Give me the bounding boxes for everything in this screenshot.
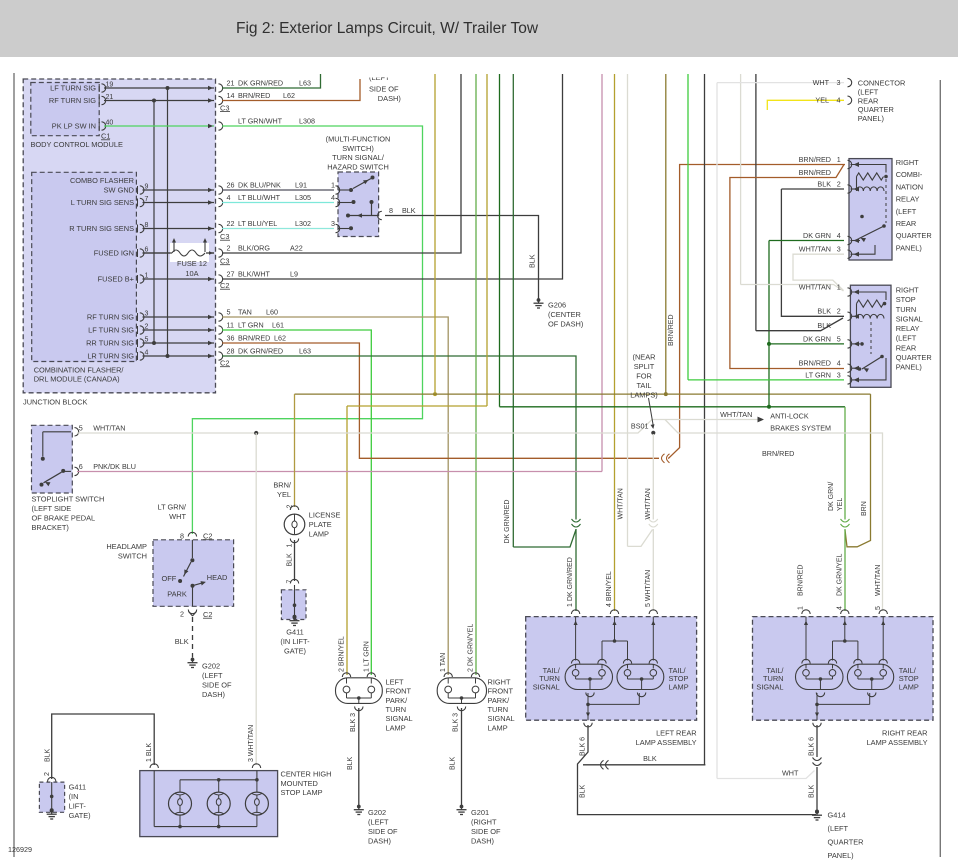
svg-text:HEAD: HEAD <box>207 573 228 582</box>
svg-text:BLK: BLK <box>450 756 457 770</box>
svg-text:L305: L305 <box>295 193 311 202</box>
svg-text:G201: G201 <box>471 808 489 817</box>
svg-text:1: 1 <box>798 606 805 610</box>
svg-text:SWITCH: SWITCH <box>118 551 147 560</box>
svg-text:QUARTER: QUARTER <box>828 838 864 847</box>
svg-text:BLK/WHT: BLK/WHT <box>238 269 271 278</box>
svg-text:PLATE: PLATE <box>309 520 332 529</box>
svg-text:GATE): GATE) <box>69 811 91 820</box>
svg-text:LT BLU/YEL: LT BLU/YEL <box>238 219 277 228</box>
svg-text:LAMP: LAMP <box>488 723 508 732</box>
svg-text:MOUNTED: MOUNTED <box>281 779 318 788</box>
svg-text:3: 3 <box>837 78 841 87</box>
svg-text:WHT/TAN: WHT/TAN <box>618 488 625 519</box>
svg-text:BLK: BLK <box>287 553 294 567</box>
svg-text:RF TURN SIG: RF TURN SIG <box>49 96 96 105</box>
svg-text:3: 3 <box>331 219 335 228</box>
svg-text:5: 5 <box>79 424 83 433</box>
svg-text:A22: A22 <box>290 243 303 252</box>
svg-text:DASH): DASH) <box>202 690 225 699</box>
svg-text:1: 1 <box>287 544 294 548</box>
svg-text:8: 8 <box>180 532 184 541</box>
svg-text:5: 5 <box>875 606 882 610</box>
svg-text:LT BLU/WHT: LT BLU/WHT <box>238 193 281 202</box>
svg-text:DASH): DASH) <box>368 836 391 845</box>
svg-text:FRONT: FRONT <box>488 687 514 696</box>
svg-text:1 DK GRN/RED: 1 DK GRN/RED <box>567 557 574 607</box>
svg-text:PK LP SW IN: PK LP SW IN <box>52 122 96 131</box>
svg-text:YEL: YEL <box>837 498 844 511</box>
svg-text:WHT/TAN: WHT/TAN <box>93 424 125 433</box>
svg-text:10A: 10A <box>185 269 198 278</box>
svg-text:BRAKES SYSTEM: BRAKES SYSTEM <box>770 424 831 433</box>
svg-text:BLK: BLK <box>580 784 587 798</box>
svg-text:L63: L63 <box>299 78 311 87</box>
svg-text:TURN SIGNAL/: TURN SIGNAL/ <box>332 153 385 162</box>
svg-text:DRL MODULE (CANADA): DRL MODULE (CANADA) <box>34 375 120 384</box>
svg-text:LT GRN: LT GRN <box>238 320 264 329</box>
svg-text:OF DASH): OF DASH) <box>548 320 583 329</box>
svg-text:LT GRN: LT GRN <box>805 370 831 379</box>
svg-text:DK GRN/RED: DK GRN/RED <box>238 78 283 87</box>
svg-text:DASH): DASH) <box>471 836 494 845</box>
svg-text:2: 2 <box>227 243 231 252</box>
svg-text:26: 26 <box>227 180 235 189</box>
svg-text:C2: C2 <box>220 281 229 290</box>
svg-text:BLK: BLK <box>817 179 831 188</box>
svg-text:GATE): GATE) <box>284 647 306 656</box>
svg-text:TURN: TURN <box>896 305 917 314</box>
svg-text:REAR: REAR <box>896 343 917 352</box>
svg-text:28: 28 <box>227 346 235 355</box>
svg-text:L9: L9 <box>290 269 298 278</box>
svg-text:YEL: YEL <box>277 490 291 499</box>
svg-text:COMBI-: COMBI- <box>896 170 923 179</box>
svg-text:BODY CONTROL MODULE: BODY CONTROL MODULE <box>31 140 123 149</box>
svg-text:(LEFT: (LEFT <box>828 824 849 833</box>
svg-text:DK GRN/: DK GRN/ <box>828 482 835 511</box>
svg-text:SPLIT: SPLIT <box>634 362 655 371</box>
svg-text:4: 4 <box>837 606 844 610</box>
svg-text:(LEFT: (LEFT <box>896 334 917 343</box>
svg-text:BRN/RED: BRN/RED <box>799 168 831 177</box>
svg-text:1 LT GRN: 1 LT GRN <box>363 641 370 672</box>
svg-text:G411: G411 <box>69 783 87 792</box>
svg-text:RIGHT: RIGHT <box>896 158 919 167</box>
svg-text:SIGNAL: SIGNAL <box>386 714 413 723</box>
svg-text:LAMP: LAMP <box>309 530 329 539</box>
svg-text:4: 4 <box>837 231 841 240</box>
svg-text:2: 2 <box>180 610 184 619</box>
svg-text:G411: G411 <box>286 628 304 637</box>
svg-text:QUARTER: QUARTER <box>896 353 932 362</box>
svg-text:ANTI-LOCK: ANTI-LOCK <box>770 411 809 420</box>
svg-text:RELAY: RELAY <box>896 324 920 333</box>
svg-text:L91: L91 <box>295 180 307 189</box>
svg-text:8: 8 <box>389 206 393 215</box>
svg-text:BS01: BS01 <box>631 421 649 430</box>
svg-text:(NEAR: (NEAR <box>633 353 656 362</box>
svg-text:PARK/: PARK/ <box>386 696 409 705</box>
svg-text:(LEFT: (LEFT <box>202 671 223 680</box>
svg-text:C2: C2 <box>203 532 212 541</box>
svg-text:NATION: NATION <box>896 182 923 191</box>
svg-text:3: 3 <box>837 370 841 379</box>
svg-text:PANEL): PANEL) <box>828 851 854 860</box>
svg-text:LIFT-: LIFT- <box>69 802 87 811</box>
svg-text:LAMP ASSEMBLY: LAMP ASSEMBLY <box>636 738 697 747</box>
svg-text:4: 4 <box>227 193 231 202</box>
svg-text:SIDE OF: SIDE OF <box>471 827 501 836</box>
svg-text:OF BRAKE PEDAL: OF BRAKE PEDAL <box>32 514 96 523</box>
svg-text:BRN/RED: BRN/RED <box>238 333 270 342</box>
svg-text:(IN: (IN <box>69 792 79 801</box>
svg-text:DK BLU/PNK: DK BLU/PNK <box>238 180 281 189</box>
svg-text:LAMP ASSEMBLY: LAMP ASSEMBLY <box>867 738 928 747</box>
svg-text:BLK 3: BLK 3 <box>453 713 460 732</box>
svg-text:1 BLK: 1 BLK <box>146 743 153 762</box>
svg-text:(LEFT: (LEFT <box>858 87 879 96</box>
svg-text:C2: C2 <box>203 610 212 619</box>
svg-text:RELAY: RELAY <box>896 195 920 204</box>
svg-text:22: 22 <box>227 219 235 228</box>
svg-text:HEADLAMP: HEADLAMP <box>106 542 147 551</box>
svg-text:4 BRN/YEL: 4 BRN/YEL <box>606 571 613 607</box>
svg-text:1: 1 <box>837 155 841 164</box>
svg-text:(LEFT: (LEFT <box>368 817 389 826</box>
svg-text:BLK: BLK <box>175 637 189 646</box>
svg-text:BLK: BLK <box>809 784 816 798</box>
svg-text:BLK: BLK <box>347 756 354 770</box>
svg-text:LF TURN SIG: LF TURN SIG <box>88 326 134 335</box>
svg-text:(IN LIFT-: (IN LIFT- <box>280 637 310 646</box>
svg-text:G202: G202 <box>368 808 386 817</box>
svg-text:LR TURN SIG: LR TURN SIG <box>87 352 134 361</box>
svg-text:BRN/RED: BRN/RED <box>762 449 794 458</box>
svg-text:SIGNAL: SIGNAL <box>756 683 783 692</box>
svg-text:PANEL): PANEL) <box>896 363 922 372</box>
svg-text:DK GRN/YEL: DK GRN/YEL <box>837 553 844 596</box>
svg-text:4: 4 <box>331 193 335 202</box>
svg-text:BRN/RED: BRN/RED <box>238 91 270 100</box>
svg-text:BRACKET): BRACKET) <box>32 523 69 532</box>
svg-text:FOR: FOR <box>636 372 652 381</box>
svg-text:WHT/TAN: WHT/TAN <box>799 282 831 291</box>
svg-text:STOPLIGHT SWITCH: STOPLIGHT SWITCH <box>32 495 105 504</box>
svg-text:TURN: TURN <box>386 705 407 714</box>
svg-text:WHT/TAN: WHT/TAN <box>720 410 752 419</box>
svg-text:REAR: REAR <box>896 219 917 228</box>
svg-text:(RIGHT: (RIGHT <box>471 817 497 826</box>
svg-text:4: 4 <box>837 359 841 368</box>
svg-text:PANEL): PANEL) <box>896 243 922 252</box>
svg-text:COMBO FLASHER: COMBO FLASHER <box>70 176 134 185</box>
svg-text:LICENSE: LICENSE <box>309 511 341 520</box>
svg-text:L63: L63 <box>299 346 311 355</box>
svg-text:BLK: BLK <box>402 206 416 215</box>
svg-text:DK GRN: DK GRN <box>803 334 831 343</box>
svg-text:L TURN SIG SENS: L TURN SIG SENS <box>71 198 134 207</box>
svg-text:36: 36 <box>227 333 235 342</box>
svg-text:(LEFT: (LEFT <box>896 207 917 216</box>
svg-text:PARK: PARK <box>167 590 187 599</box>
svg-text:4: 4 <box>837 96 841 105</box>
svg-text:STOP: STOP <box>896 295 916 304</box>
svg-text:2: 2 <box>44 772 51 776</box>
svg-text:DK GRN/RED: DK GRN/RED <box>504 500 511 544</box>
svg-text:(MULTI-FUNCTION: (MULTI-FUNCTION <box>326 135 391 144</box>
svg-text:DASH): DASH) <box>378 94 401 103</box>
svg-text:CENTER HIGH: CENTER HIGH <box>281 770 332 779</box>
svg-text:RIGHT REAR: RIGHT REAR <box>882 728 927 737</box>
svg-text:LAMPS): LAMPS) <box>630 391 658 400</box>
svg-text:WHT: WHT <box>169 512 186 521</box>
svg-text:L302: L302 <box>295 219 311 228</box>
svg-text:FUSE 12: FUSE 12 <box>177 259 207 268</box>
svg-text:G202: G202 <box>202 661 220 670</box>
svg-text:STOP LAMP: STOP LAMP <box>281 788 323 797</box>
svg-text:SW GND: SW GND <box>104 186 134 195</box>
svg-text:RF TURN SIG: RF TURN SIG <box>87 313 134 322</box>
svg-text:LF TURN SIG: LF TURN SIG <box>50 84 96 93</box>
svg-text:1: 1 <box>331 180 335 189</box>
svg-text:LT GRN/WHT: LT GRN/WHT <box>238 116 283 125</box>
svg-text:2 BRN/YEL: 2 BRN/YEL <box>339 636 346 672</box>
svg-text:SIGNAL: SIGNAL <box>488 714 515 723</box>
svg-text:C3: C3 <box>220 103 229 112</box>
svg-text:LEFT REAR: LEFT REAR <box>656 728 697 737</box>
svg-text:C1: C1 <box>101 132 110 141</box>
svg-text:LT GRN/: LT GRN/ <box>158 503 187 512</box>
svg-text:L308: L308 <box>299 116 315 125</box>
svg-text:126929: 126929 <box>8 845 32 854</box>
svg-text:YEL: YEL <box>815 96 829 105</box>
svg-text:SIGNAL: SIGNAL <box>533 683 560 692</box>
svg-text:DK GRN/RED: DK GRN/RED <box>238 346 283 355</box>
svg-text:6: 6 <box>79 462 83 471</box>
svg-text:(LEFT SIDE: (LEFT SIDE <box>32 504 72 513</box>
svg-text:PNK/DK BLU: PNK/DK BLU <box>93 462 136 471</box>
svg-text:LAMP: LAMP <box>899 683 919 692</box>
svg-text:3: 3 <box>837 245 841 254</box>
svg-text:(CENTER: (CENTER <box>548 310 581 319</box>
svg-text:L60: L60 <box>266 307 278 316</box>
svg-text:BRN/RED: BRN/RED <box>798 564 805 596</box>
svg-text:LAMP: LAMP <box>386 723 406 732</box>
svg-text:C2: C2 <box>220 359 229 368</box>
svg-text:WHT: WHT <box>782 769 799 778</box>
svg-text:BLK: BLK <box>45 748 52 762</box>
svg-text:5 WHT/TAN: 5 WHT/TAN <box>645 570 652 607</box>
svg-text:1 TAN: 1 TAN <box>440 653 447 672</box>
svg-text:BRN/RED: BRN/RED <box>668 314 675 346</box>
svg-text:TURN: TURN <box>488 705 509 714</box>
svg-text:C3: C3 <box>220 232 229 241</box>
svg-text:SIDE OF: SIDE OF <box>202 680 232 689</box>
svg-text:5: 5 <box>837 334 841 343</box>
svg-text:G206: G206 <box>548 301 566 310</box>
svg-text:G414: G414 <box>828 811 846 820</box>
svg-text:BLK: BLK <box>528 254 537 268</box>
svg-text:PANEL): PANEL) <box>858 114 884 123</box>
svg-text:QUARTER: QUARTER <box>896 231 932 240</box>
svg-text:BRN/: BRN/ <box>273 481 292 490</box>
svg-text:WHT/TAN: WHT/TAN <box>799 245 831 254</box>
svg-text:27: 27 <box>227 269 235 278</box>
svg-text:11: 11 <box>227 320 234 329</box>
svg-text:BLK 6: BLK 6 <box>809 737 816 756</box>
svg-text:BRN/RED: BRN/RED <box>799 155 831 164</box>
svg-text:SIGNAL: SIGNAL <box>896 314 923 323</box>
svg-text:SIDE OF: SIDE OF <box>369 85 399 94</box>
svg-text:WHT/TAN: WHT/TAN <box>875 565 882 596</box>
svg-text:BRN/RED: BRN/RED <box>799 359 831 368</box>
svg-text:PARK/: PARK/ <box>488 696 511 705</box>
svg-text:BLK 3: BLK 3 <box>350 713 357 732</box>
svg-text:L62: L62 <box>274 333 286 342</box>
svg-text:5: 5 <box>227 307 231 316</box>
svg-text:TAIL: TAIL <box>636 381 651 390</box>
svg-text:R TURN SIG SENS: R TURN SIG SENS <box>69 224 134 233</box>
svg-text:SWITCH): SWITCH) <box>342 144 374 153</box>
svg-text:14: 14 <box>227 91 235 100</box>
svg-text:L62: L62 <box>283 91 295 100</box>
svg-text:OFF: OFF <box>162 574 177 583</box>
svg-text:CONNECTOR: CONNECTOR <box>858 79 906 88</box>
svg-text:WHT/TAN: WHT/TAN <box>645 488 652 519</box>
svg-text:2: 2 <box>837 179 841 188</box>
svg-text:2 DK GRN/YEL: 2 DK GRN/YEL <box>468 624 475 672</box>
svg-text:1: 1 <box>837 282 841 291</box>
svg-text:RR TURN SIG: RR TURN SIG <box>86 339 134 348</box>
svg-text:L61: L61 <box>272 320 284 329</box>
svg-text:HAZARD SWITCH: HAZARD SWITCH <box>327 162 389 171</box>
svg-text:QUARTER: QUARTER <box>858 105 894 114</box>
svg-text:WHT: WHT <box>813 78 830 87</box>
svg-text:BLK: BLK <box>643 754 657 763</box>
svg-text:LEFT: LEFT <box>386 677 405 686</box>
svg-text:BLK: BLK <box>817 307 831 316</box>
svg-text:BLK 6: BLK 6 <box>580 737 587 756</box>
svg-text:COMBINATION FLASHER/: COMBINATION FLASHER/ <box>34 365 125 374</box>
svg-text:BLK/ORG: BLK/ORG <box>238 243 270 252</box>
svg-text:Fig 2: Exterior Lamps Circuit,: Fig 2: Exterior Lamps Circuit, W/ Traile… <box>236 20 539 37</box>
svg-text:RIGHT: RIGHT <box>488 677 511 686</box>
svg-text:C3: C3 <box>220 257 229 266</box>
svg-text:FRONT: FRONT <box>386 687 412 696</box>
svg-text:DK GRN: DK GRN <box>803 231 831 240</box>
svg-text:FUSED IGN: FUSED IGN <box>94 249 134 258</box>
svg-text:FUSED B+: FUSED B+ <box>98 275 134 284</box>
svg-text:TAN: TAN <box>238 307 252 316</box>
svg-text:RIGHT: RIGHT <box>896 286 919 295</box>
svg-text:21: 21 <box>227 78 235 87</box>
svg-text:LAMP: LAMP <box>669 683 689 692</box>
svg-text:JUNCTION BLOCK: JUNCTION BLOCK <box>23 398 88 407</box>
svg-text:2: 2 <box>837 307 841 316</box>
svg-text:REAR: REAR <box>858 96 879 105</box>
svg-text:SIDE OF: SIDE OF <box>368 827 398 836</box>
svg-text:3 WHT/TAN: 3 WHT/TAN <box>248 725 255 762</box>
svg-text:BRN: BRN <box>861 501 868 516</box>
